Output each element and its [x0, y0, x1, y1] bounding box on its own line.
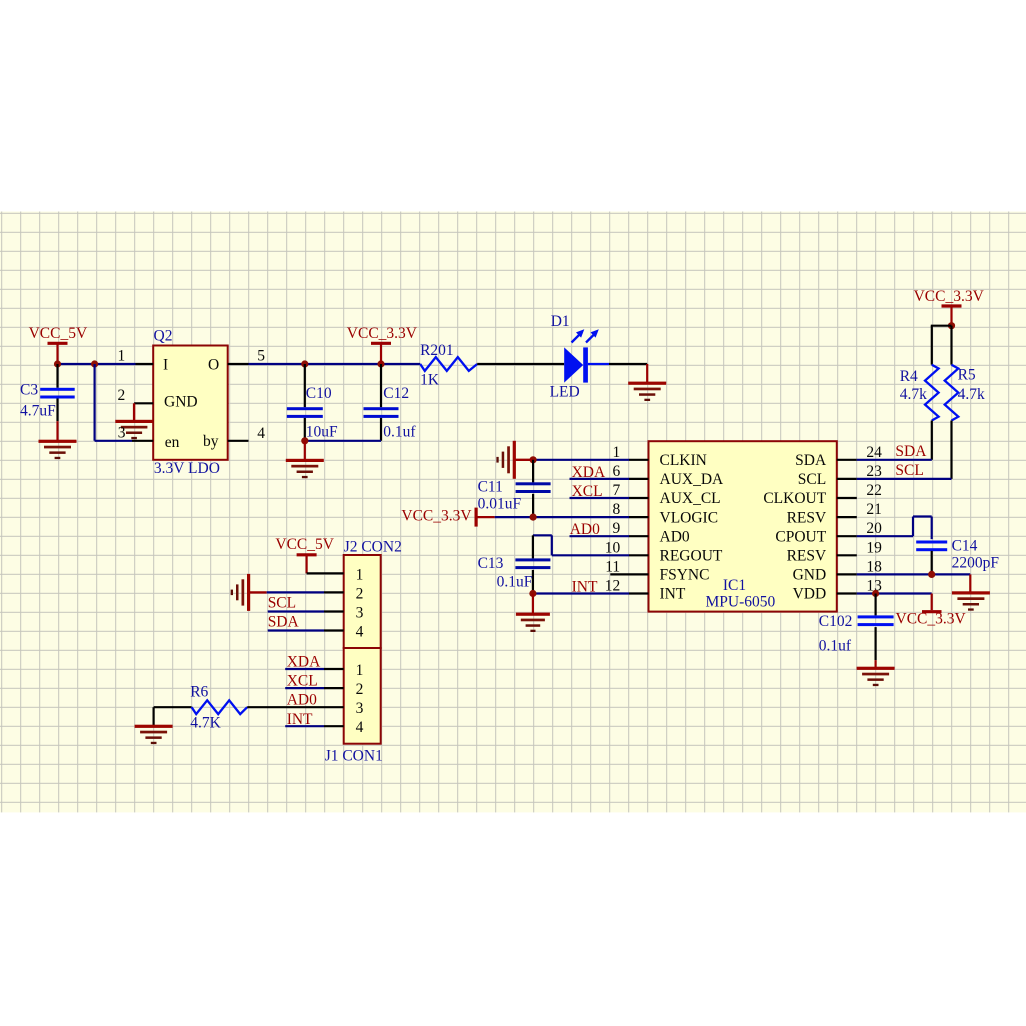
wire J2 pin2	[267, 591, 344, 593]
junction pullup top	[948, 322, 955, 329]
IC1 pin name AD0	[660, 528, 690, 545]
Q2 pin 1	[118, 348, 154, 365]
IC1 pin number 18	[866, 558, 882, 575]
wire VCC_5V to Q2 pin1	[58, 363, 136, 365]
IC1 pin name AUX_DA	[660, 471, 725, 488]
svg-text:1: 1	[118, 348, 126, 365]
svg-text:FSYNC: FSYNC	[660, 567, 710, 584]
svg-text:11: 11	[605, 558, 620, 575]
svg-text:23: 23	[866, 463, 882, 480]
IC1 pin number 24	[866, 444, 882, 461]
svg-text:VCC_5V: VCC_5V	[275, 536, 334, 553]
svg-text:0.1uF: 0.1uF	[497, 573, 533, 590]
IC1 right pin 13 stub	[837, 592, 857, 594]
svg-text:3: 3	[118, 425, 126, 442]
wire SCL net	[857, 462, 952, 479]
svg-text:CPOUT: CPOUT	[775, 528, 826, 545]
power VCC_3.3V top right	[914, 288, 985, 326]
Q2 pin 2	[118, 387, 154, 404]
ground right of LED	[628, 364, 666, 401]
wire INT net	[533, 579, 629, 596]
junction INT/C13 bottom	[529, 590, 536, 597]
connector J2 CON2 body	[344, 538, 402, 648]
svg-text:R201: R201	[420, 342, 454, 359]
svg-text:4.7k: 4.7k	[900, 386, 927, 403]
svg-text:VDD: VDD	[793, 586, 827, 603]
IC1 pin number 23	[866, 463, 882, 480]
wire XCL net	[570, 483, 630, 500]
svg-text:LED: LED	[550, 384, 580, 401]
svg-text:VCC_3.3V: VCC_3.3V	[914, 288, 985, 305]
svg-text:CLKIN: CLKIN	[660, 452, 707, 469]
wire INT to J1 pin4	[285, 711, 344, 728]
junction CLKIN/C11	[530, 456, 537, 463]
svg-text:en: en	[165, 434, 180, 451]
IC1 pin number 11	[605, 558, 620, 575]
svg-text:4: 4	[356, 719, 364, 736]
IC1 right pin 24 stub	[837, 459, 857, 461]
svg-text:18: 18	[866, 558, 882, 575]
wire SCL to J2 pin3	[268, 595, 344, 612]
svg-text:2200pF: 2200pF	[952, 554, 1000, 571]
svg-text:1: 1	[612, 444, 620, 461]
IC1 pin number 19	[866, 539, 882, 556]
svg-text:6: 6	[612, 463, 620, 480]
junction C14/GND wire	[928, 571, 935, 578]
Q2 pin 3 en	[118, 425, 154, 442]
schematic sheet background	[0, 212, 1026, 813]
svg-text:O: O	[208, 356, 219, 373]
svg-text:XDA: XDA	[572, 464, 606, 481]
svg-text:8: 8	[612, 501, 620, 518]
svg-text:SDA: SDA	[795, 452, 827, 469]
svg-text:J1 CON1: J1 CON1	[325, 747, 383, 764]
capacitor C14 2200pF	[916, 537, 999, 574]
svg-text:RESV: RESV	[787, 548, 827, 565]
IC1 pin number 12	[605, 578, 621, 595]
IC1 pin number 6	[612, 463, 620, 480]
junction at C3 top	[54, 360, 61, 367]
IC1 pin name RESV	[787, 548, 827, 565]
wire SDA to J2 pin4	[268, 614, 344, 631]
IC1 pin name CLKIN	[660, 452, 707, 469]
svg-text:INT: INT	[572, 579, 598, 596]
svg-text:1: 1	[356, 662, 364, 679]
svg-text:1: 1	[356, 566, 364, 583]
svg-text:SDA: SDA	[268, 614, 300, 631]
IC1 pin name AUX_CL	[660, 490, 721, 507]
svg-text:19: 19	[866, 539, 882, 556]
capacitor C13 0.1uF	[478, 535, 551, 593]
svg-text:C3: C3	[20, 382, 38, 399]
IC1 left pin 8 stub	[629, 516, 649, 518]
wire SDA net	[857, 443, 932, 460]
junction at C10	[301, 360, 308, 367]
wire R201 to LED	[477, 363, 564, 365]
svg-text:12: 12	[605, 578, 621, 595]
IC1 pin name FSYNC	[660, 567, 710, 584]
IC1 pin number 10	[605, 539, 621, 556]
ground under C3	[39, 421, 77, 459]
IC1 pin name REGOUT	[660, 548, 723, 565]
svg-text:AD0: AD0	[570, 521, 600, 538]
svg-text:CLKOUT: CLKOUT	[763, 490, 826, 507]
IC1 pin number 1	[612, 444, 620, 461]
resistor R201 1K	[420, 342, 477, 389]
J2 pin 1 number	[356, 566, 364, 583]
resistor R6 4.7K	[154, 683, 248, 731]
IC1 pin number 9	[612, 520, 620, 537]
svg-text:24: 24	[866, 444, 882, 461]
ground under C102	[857, 660, 895, 686]
IC1 right pin 19 stub	[837, 554, 857, 556]
svg-text:7: 7	[612, 482, 620, 499]
capacitor C12 0.1uf	[364, 364, 417, 441]
svg-text:IC1: IC1	[723, 577, 746, 594]
IC1 pin name CLKOUT	[763, 490, 826, 507]
svg-text:SDA: SDA	[895, 443, 927, 460]
svg-text:XCL: XCL	[572, 483, 603, 500]
IC1 left pin 7 stub	[629, 497, 649, 499]
wire VDD net	[857, 592, 932, 594]
wire R5 bottom to SCL	[950, 421, 952, 479]
wire XDA net	[570, 464, 630, 481]
svg-text:GND: GND	[164, 394, 198, 411]
svg-text:9: 9	[612, 520, 620, 537]
J1 pin 2 number	[356, 681, 364, 698]
resistor R4 4.7k	[900, 365, 939, 421]
wire AD0 to J1 pin3	[247, 692, 344, 709]
svg-text:Q2: Q2	[154, 327, 173, 344]
IC1 right pin 22 stub	[837, 497, 857, 499]
svg-text:INT: INT	[660, 586, 686, 603]
junction VLOGIC/C11 bottom	[530, 514, 537, 521]
svg-text:R4: R4	[900, 368, 918, 385]
ground at Q2 pin 2	[115, 403, 153, 439]
J1 pin 3 number	[356, 700, 364, 717]
IC1 pin name INT	[660, 586, 686, 603]
IC1 left pin 10 stub	[629, 554, 649, 556]
svg-text:4: 4	[356, 624, 364, 641]
IC1 left pin 1 stub	[629, 459, 649, 461]
svg-text:AD0: AD0	[660, 528, 690, 545]
svg-text:by: by	[203, 433, 219, 450]
wire pullup tops	[931, 326, 952, 365]
wire REGOUT to C13	[533, 535, 629, 555]
svg-text:VCC_3.3V: VCC_3.3V	[896, 610, 967, 627]
Q2 pin 5 output	[228, 348, 266, 365]
svg-text:2: 2	[356, 681, 364, 698]
svg-text:I: I	[163, 356, 168, 373]
IC1 pin number 13	[866, 578, 882, 595]
IC1 pin number 7	[612, 482, 620, 499]
wire J2 pin1	[307, 572, 344, 574]
svg-text:VCC_5V: VCC_5V	[29, 325, 88, 342]
wire GND net right	[857, 573, 971, 575]
wire 3.3V rail	[249, 363, 421, 365]
svg-text:SCL: SCL	[268, 595, 296, 612]
svg-text:C102: C102	[819, 613, 853, 630]
IC1 pin number 20	[866, 520, 882, 537]
J1 pin 4 number	[356, 719, 364, 736]
svg-text:SCL: SCL	[798, 471, 826, 488]
svg-text:4.7K: 4.7K	[190, 715, 221, 732]
svg-text:INT: INT	[287, 711, 313, 728]
ground at J2 pin2	[231, 574, 267, 611]
svg-text:C13: C13	[478, 555, 504, 572]
svg-text:R6: R6	[190, 683, 208, 700]
svg-text:0.01uF: 0.01uF	[478, 496, 522, 513]
svg-text:3.3V LDO: 3.3V LDO	[154, 460, 220, 477]
junction at en branch	[91, 360, 98, 367]
svg-text:XCL: XCL	[287, 673, 318, 690]
wire VLOGIC net	[495, 516, 629, 518]
svg-text:C11: C11	[478, 479, 503, 496]
wire LED cathode to ground	[588, 363, 647, 365]
svg-text:VCC_3.3V: VCC_3.3V	[347, 325, 418, 342]
IC1 pin name VDD	[793, 586, 827, 603]
svg-text:RESV: RESV	[787, 509, 827, 526]
svg-text:SCL: SCL	[895, 462, 923, 479]
svg-text:GND: GND	[793, 567, 827, 584]
svg-text:C12: C12	[383, 385, 409, 402]
svg-text:4.7k: 4.7k	[958, 386, 985, 403]
svg-text:0.1uf: 0.1uf	[819, 637, 852, 654]
ground right of IC	[952, 574, 990, 610]
svg-text:2: 2	[356, 585, 364, 602]
transistor Q2 3.3V LDO body	[153, 327, 228, 477]
svg-text:4.7uF: 4.7uF	[20, 402, 56, 419]
ground under C10	[286, 441, 324, 478]
IC1 left pin 12 stub	[629, 592, 649, 594]
svg-text:VCC_3.3V: VCC_3.3V	[401, 507, 472, 524]
power VCC_3.3V at C12	[347, 325, 418, 364]
J2 pin 3 number	[356, 605, 364, 622]
junction VDD/C102	[872, 590, 879, 597]
IC1 left pin 6 stub	[629, 478, 649, 480]
svg-text:AD0: AD0	[287, 692, 317, 709]
IC1 right pin 20 stub	[837, 535, 857, 537]
IC1 right pin 21 stub	[837, 516, 857, 518]
Q2 pin 4 by	[228, 425, 266, 442]
power VCC_3.3V at VLOGIC	[401, 507, 494, 526]
IC1 pin number 8	[612, 501, 620, 518]
power VCC_5V at J2	[275, 536, 334, 573]
svg-text:J2 CON2: J2 CON2	[344, 538, 402, 555]
wire en net	[95, 364, 132, 441]
ground under C13	[516, 594, 550, 633]
power VCC_5V	[29, 325, 88, 364]
svg-text:2: 2	[118, 387, 126, 404]
capacitor C11 0.01uF	[478, 460, 551, 517]
J1 pin 1 number	[356, 662, 364, 679]
svg-text:0.1uf: 0.1uf	[383, 424, 416, 441]
junction at C10 bottom	[301, 437, 308, 444]
power VCC_3.3V down at VDD	[896, 594, 967, 628]
svg-text:D1: D1	[551, 313, 570, 330]
IC1 left pin 9 stub	[629, 535, 649, 537]
LED D1	[550, 313, 599, 401]
svg-text:1K: 1K	[420, 372, 440, 389]
IC1 right pin 23 stub	[837, 478, 857, 480]
svg-text:AUX_CL: AUX_CL	[660, 490, 721, 507]
svg-text:VLOGIC: VLOGIC	[660, 509, 719, 526]
IC1 pin number 21	[866, 501, 882, 518]
IC1 pin name SCL	[798, 471, 826, 488]
IC1 right pin 18 stub	[837, 573, 857, 575]
svg-text:22: 22	[866, 482, 882, 499]
resistor R5 4.7k	[945, 365, 985, 421]
svg-text:C10: C10	[306, 385, 332, 402]
wire CLKIN net	[533, 459, 629, 461]
J2 pin 2 number	[356, 585, 364, 602]
svg-text:MPU-6050: MPU-6050	[706, 594, 776, 611]
J2 pin 4 number	[356, 624, 364, 641]
ground left of CLKIN	[496, 441, 533, 479]
svg-text:10: 10	[605, 539, 621, 556]
IC1 pin name CPOUT	[775, 528, 826, 545]
svg-text:21: 21	[866, 501, 882, 518]
connector J1 CON1 body	[325, 648, 383, 764]
svg-text:XDA: XDA	[287, 654, 321, 671]
junction at C12	[377, 360, 384, 367]
capacitor C102 0.1uf	[819, 594, 894, 661]
svg-text:REGOUT: REGOUT	[660, 548, 723, 565]
capacitor C10 10uF	[287, 364, 338, 441]
IC1 pin 11 stub	[610, 573, 648, 575]
ground at R6	[135, 707, 173, 744]
wire XCL to J1 pin2	[285, 673, 344, 690]
capacitor C3 4.7uF	[20, 364, 75, 421]
svg-text:C14: C14	[952, 537, 978, 554]
IC1 pin name GND	[793, 567, 827, 584]
IC1 pin name VLOGIC	[660, 509, 719, 526]
IC1 pin name RESV	[787, 509, 827, 526]
svg-text:3: 3	[356, 605, 364, 622]
svg-text:R5: R5	[958, 367, 976, 384]
IC1 pin number 22	[866, 482, 882, 499]
wire CPOUT to C14	[857, 517, 932, 540]
wire XDA to J1 pin1	[285, 654, 344, 671]
svg-text:10uF: 10uF	[306, 424, 338, 441]
op-amp IC1 MPU-6050 body	[649, 441, 837, 611]
svg-text:3: 3	[356, 700, 364, 717]
svg-text:20: 20	[866, 520, 882, 537]
wire R4 bottom to SDA	[931, 421, 933, 460]
svg-text:4: 4	[257, 425, 265, 442]
svg-text:AUX_DA: AUX_DA	[660, 471, 725, 488]
svg-text:5: 5	[257, 348, 265, 365]
IC1 pin name SDA	[795, 452, 827, 469]
wire C10-C12 bottoms	[305, 440, 381, 442]
wire AD0 net	[570, 521, 630, 538]
